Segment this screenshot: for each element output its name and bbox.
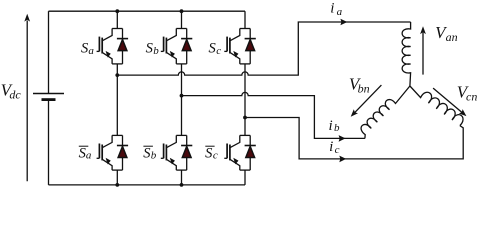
wire top DC bus	[49, 10, 246, 12]
battery V1 short plate	[42, 98, 56, 101]
wire bottom DC bus	[49, 184, 246, 186]
wire leg C bottom	[244, 170, 246, 185]
svg-text:i: i	[329, 118, 333, 134]
wire leg B bottom	[181, 170, 183, 185]
svg-text:b: b	[334, 122, 340, 134]
svg-text:a: a	[86, 150, 92, 162]
label S_b	[146, 41, 160, 57]
svg-text:i: i	[329, 139, 333, 155]
node phase A tap	[115, 73, 119, 77]
label S_c-bar	[205, 146, 218, 162]
label V_an	[435, 23, 458, 44]
wire leg C feed top	[244, 11, 246, 28]
transistor S_b with diode, upper leg B	[161, 29, 193, 64]
transistor S_c with diode, upper leg C	[224, 29, 256, 64]
svg-text:b: b	[153, 45, 159, 57]
label S_b-bar	[143, 146, 157, 162]
label i_c	[329, 139, 340, 156]
arrow V_dc	[24, 14, 30, 182]
label i_a	[330, 1, 342, 18]
arrow i_b	[339, 135, 346, 142]
svg-text:a: a	[88, 45, 94, 57]
node phase B tap	[180, 94, 184, 98]
wire leg A bottom	[116, 170, 118, 185]
transistor S_a-bar with diode, lower leg A	[97, 135, 129, 170]
svg-text:i: i	[330, 1, 334, 17]
svg-text:c: c	[335, 144, 340, 156]
inductor phase C coil	[410, 86, 463, 126]
arrow i_c	[339, 156, 346, 163]
node phase C tap	[243, 116, 247, 120]
node top bus leg A	[115, 9, 119, 13]
node bottom bus leg A	[115, 183, 119, 187]
svg-text:b: b	[151, 150, 157, 162]
node top bus leg B	[180, 9, 184, 13]
label S_a-bar	[79, 146, 92, 162]
arrow V_cn	[433, 88, 466, 116]
label V_dc	[1, 80, 22, 101]
wire battery branch bottom	[48, 100, 50, 185]
svg-text:S: S	[205, 146, 213, 162]
svg-text:a: a	[337, 6, 343, 18]
wire battery branch top	[48, 11, 50, 93]
arrow V_an	[420, 26, 426, 74]
transistor S_b-bar with diode, lower leg B	[161, 135, 193, 170]
wire phase A output with hops	[117, 22, 410, 75]
wire phase B output with hop	[182, 92, 365, 138]
svg-text:c: c	[213, 150, 218, 162]
node dots	[115, 9, 247, 187]
svg-text:an: an	[446, 30, 458, 44]
label S_c	[209, 41, 222, 57]
label V_cn	[457, 82, 478, 103]
wire leg A mid	[116, 64, 118, 135]
transistor S_a with diode, upper leg A	[97, 29, 129, 64]
arrow V_bn	[351, 85, 382, 117]
svg-text:c: c	[216, 45, 221, 57]
battery V1 long plate	[33, 93, 64, 95]
wire phase C output	[245, 118, 463, 159]
label i_b	[329, 118, 341, 134]
wire leg B feed top	[181, 11, 183, 28]
svg-text:bn: bn	[358, 82, 370, 96]
svg-text:cn: cn	[466, 90, 477, 104]
node bottom bus leg B	[180, 183, 184, 187]
inductor phase B coil	[361, 86, 410, 138]
wire leg A feed top	[116, 11, 118, 28]
wire leg B mid	[181, 64, 183, 135]
arrow i_a	[340, 19, 347, 26]
transistor S_c-bar with diode, lower leg C	[224, 135, 256, 170]
label S_a	[81, 41, 94, 57]
wire leg C mid	[244, 64, 246, 135]
label V_bn	[349, 74, 370, 95]
inductor phase A coil	[402, 22, 410, 86]
svg-text:dc: dc	[9, 88, 21, 102]
